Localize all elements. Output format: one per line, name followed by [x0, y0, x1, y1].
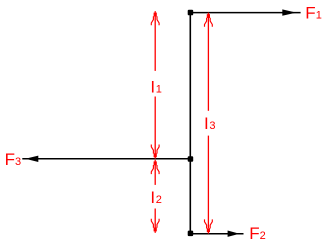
dimension arrow I3: shaft lower segment [207, 136, 209, 228]
node B: middle junction [188, 156, 194, 162]
node C: bottom junction [188, 231, 194, 237]
dimension arrow I3: up head [205, 13, 213, 27]
wire: top horizontal to F1 [190, 12, 300, 14]
dimension arrow I1: shaft upper segment [154, 14, 156, 71]
dimension arrow I2: up head [151, 160, 159, 174]
dimension arrow I2: shaft lower segment [154, 209, 156, 229]
svg-text:I3: I3 [204, 114, 215, 133]
arrowhead F2 (black, right) [228, 231, 240, 237]
dimension arrow I3: down head [205, 219, 213, 233]
dimension arrow I1: shaft lower segment [154, 97, 156, 155]
svg-text:F2: F2 [249, 224, 266, 243]
svg-text:I1: I1 [150, 78, 161, 97]
svg-text:F3: F3 [5, 150, 22, 169]
arrowhead F1 (black, right) [282, 9, 296, 15]
arrowhead F3 (black, left) [25, 156, 38, 162]
svg-text:F1: F1 [305, 3, 322, 22]
dimension arrow I1: up head [151, 11, 159, 25]
wire: bottom horizontal to F2 [190, 233, 243, 235]
dimension arrow I1: down head [151, 145, 159, 159]
dimension arrow I2: shaft upper segment [154, 163, 156, 185]
svg-text:I2: I2 [150, 188, 161, 207]
wire: vertical conductor (right) [189, 13, 191, 234]
dimension arrow I2: down head [151, 219, 159, 233]
node A: top junction [188, 10, 194, 16]
wire: middle horizontal to F3 [22, 158, 190, 160]
dimension arrow I3: shaft upper segment [207, 16, 209, 111]
